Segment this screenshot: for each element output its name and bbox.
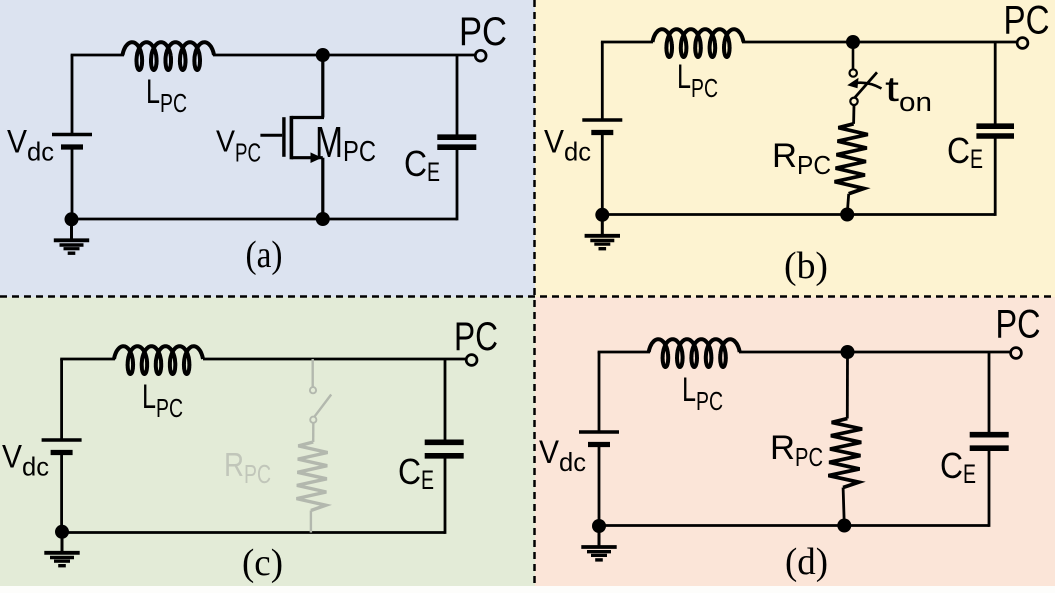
ground panel a [70, 219, 73, 240]
node ground panel a [65, 212, 79, 226]
node ground panel c [55, 525, 69, 539]
wire: panel a bottom [71, 218, 457, 221]
ground panel d [598, 526, 601, 547]
svg-text:(c): (c) [242, 542, 283, 584]
svg-text:(a): (a) [246, 234, 283, 276]
wire: panel b bottom [601, 213, 995, 216]
wire: panel d top [598, 351, 650, 354]
wire: panel c bottom [60, 531, 445, 534]
transistor M_PC source lead with arrow [291, 156, 322, 159]
battery long plate [52, 133, 92, 136]
node bottom panel a [316, 212, 330, 226]
panel (d) background [535, 297, 1055, 593]
battery short plate [591, 130, 613, 135]
terminal PC panel d [1011, 348, 1022, 359]
node top panel a [316, 48, 330, 62]
capacitor C_E branch panel a [456, 55, 459, 135]
wire: panel b top [601, 41, 653, 44]
wire: panel a left vertical [71, 55, 74, 135]
wire: panel d bottom [598, 524, 989, 527]
ground panel b [601, 215, 604, 236]
capacitor C_E branch panel b [994, 42, 997, 127]
wire: panel b left vertical [601, 42, 604, 120]
node bottom resistor panel b [840, 208, 854, 222]
panel (b) background [535, 0, 1055, 297]
svg-text:PC: PC [454, 315, 498, 359]
wire: panel c left vertical [60, 359, 63, 440]
node top panel d [841, 345, 855, 359]
node top panel b [846, 35, 860, 49]
wire: panel a top [71, 54, 124, 57]
svg-text:PC: PC [996, 303, 1041, 347]
resistor R_PC panel b [852, 105, 855, 124]
battery long plate [579, 430, 619, 433]
capacitor C_E branch panel c [444, 359, 447, 442]
capacitor C_E branch panel d [988, 352, 991, 435]
terminal PC panel b [1017, 38, 1028, 49]
transistor M_PC gate lead [260, 134, 282, 137]
battery short plate [51, 450, 73, 455]
inductor L_PC panel a [123, 42, 215, 70]
resistor R_PC (gray) panel c [312, 423, 314, 442]
battery short plate [61, 144, 83, 149]
panel (c) background [0, 297, 535, 593]
node ground panel d [592, 519, 606, 533]
battery long plate [42, 438, 82, 441]
svg-text:(b): (b) [784, 245, 828, 287]
terminal PC panel a [475, 50, 486, 61]
inductor L_PC panel b [653, 29, 744, 57]
node ground panel b [595, 208, 609, 222]
battery long plate [582, 118, 622, 121]
ground panel c [61, 532, 64, 553]
transistor M_PC drain lead [321, 55, 324, 118]
wire: panel c top [60, 358, 115, 361]
svg-text:PC: PC [459, 10, 507, 54]
dashed divider horizontal [0, 295, 1055, 298]
transistor M_PC channel bar [290, 116, 294, 159]
battery short plate [588, 442, 610, 447]
wire: panel d left vertical [598, 352, 601, 432]
svg-text:PC: PC [1004, 0, 1050, 43]
panel (a) background [0, 0, 535, 297]
switch (open, gray) panel c [312, 359, 314, 387]
svg-text:(d): (d) [785, 541, 828, 583]
resistor R_PC panel d [846, 352, 849, 419]
inductor L_PC panel c [114, 346, 203, 374]
switch t_on panel b [852, 42, 855, 69]
inductor L_PC panel d [649, 339, 740, 367]
dashed divider vertical [533, 0, 536, 593]
node bottom resistor panel d [837, 519, 851, 533]
transistor M_PC gate bar [282, 117, 285, 157]
terminal PC panel c [466, 355, 477, 366]
